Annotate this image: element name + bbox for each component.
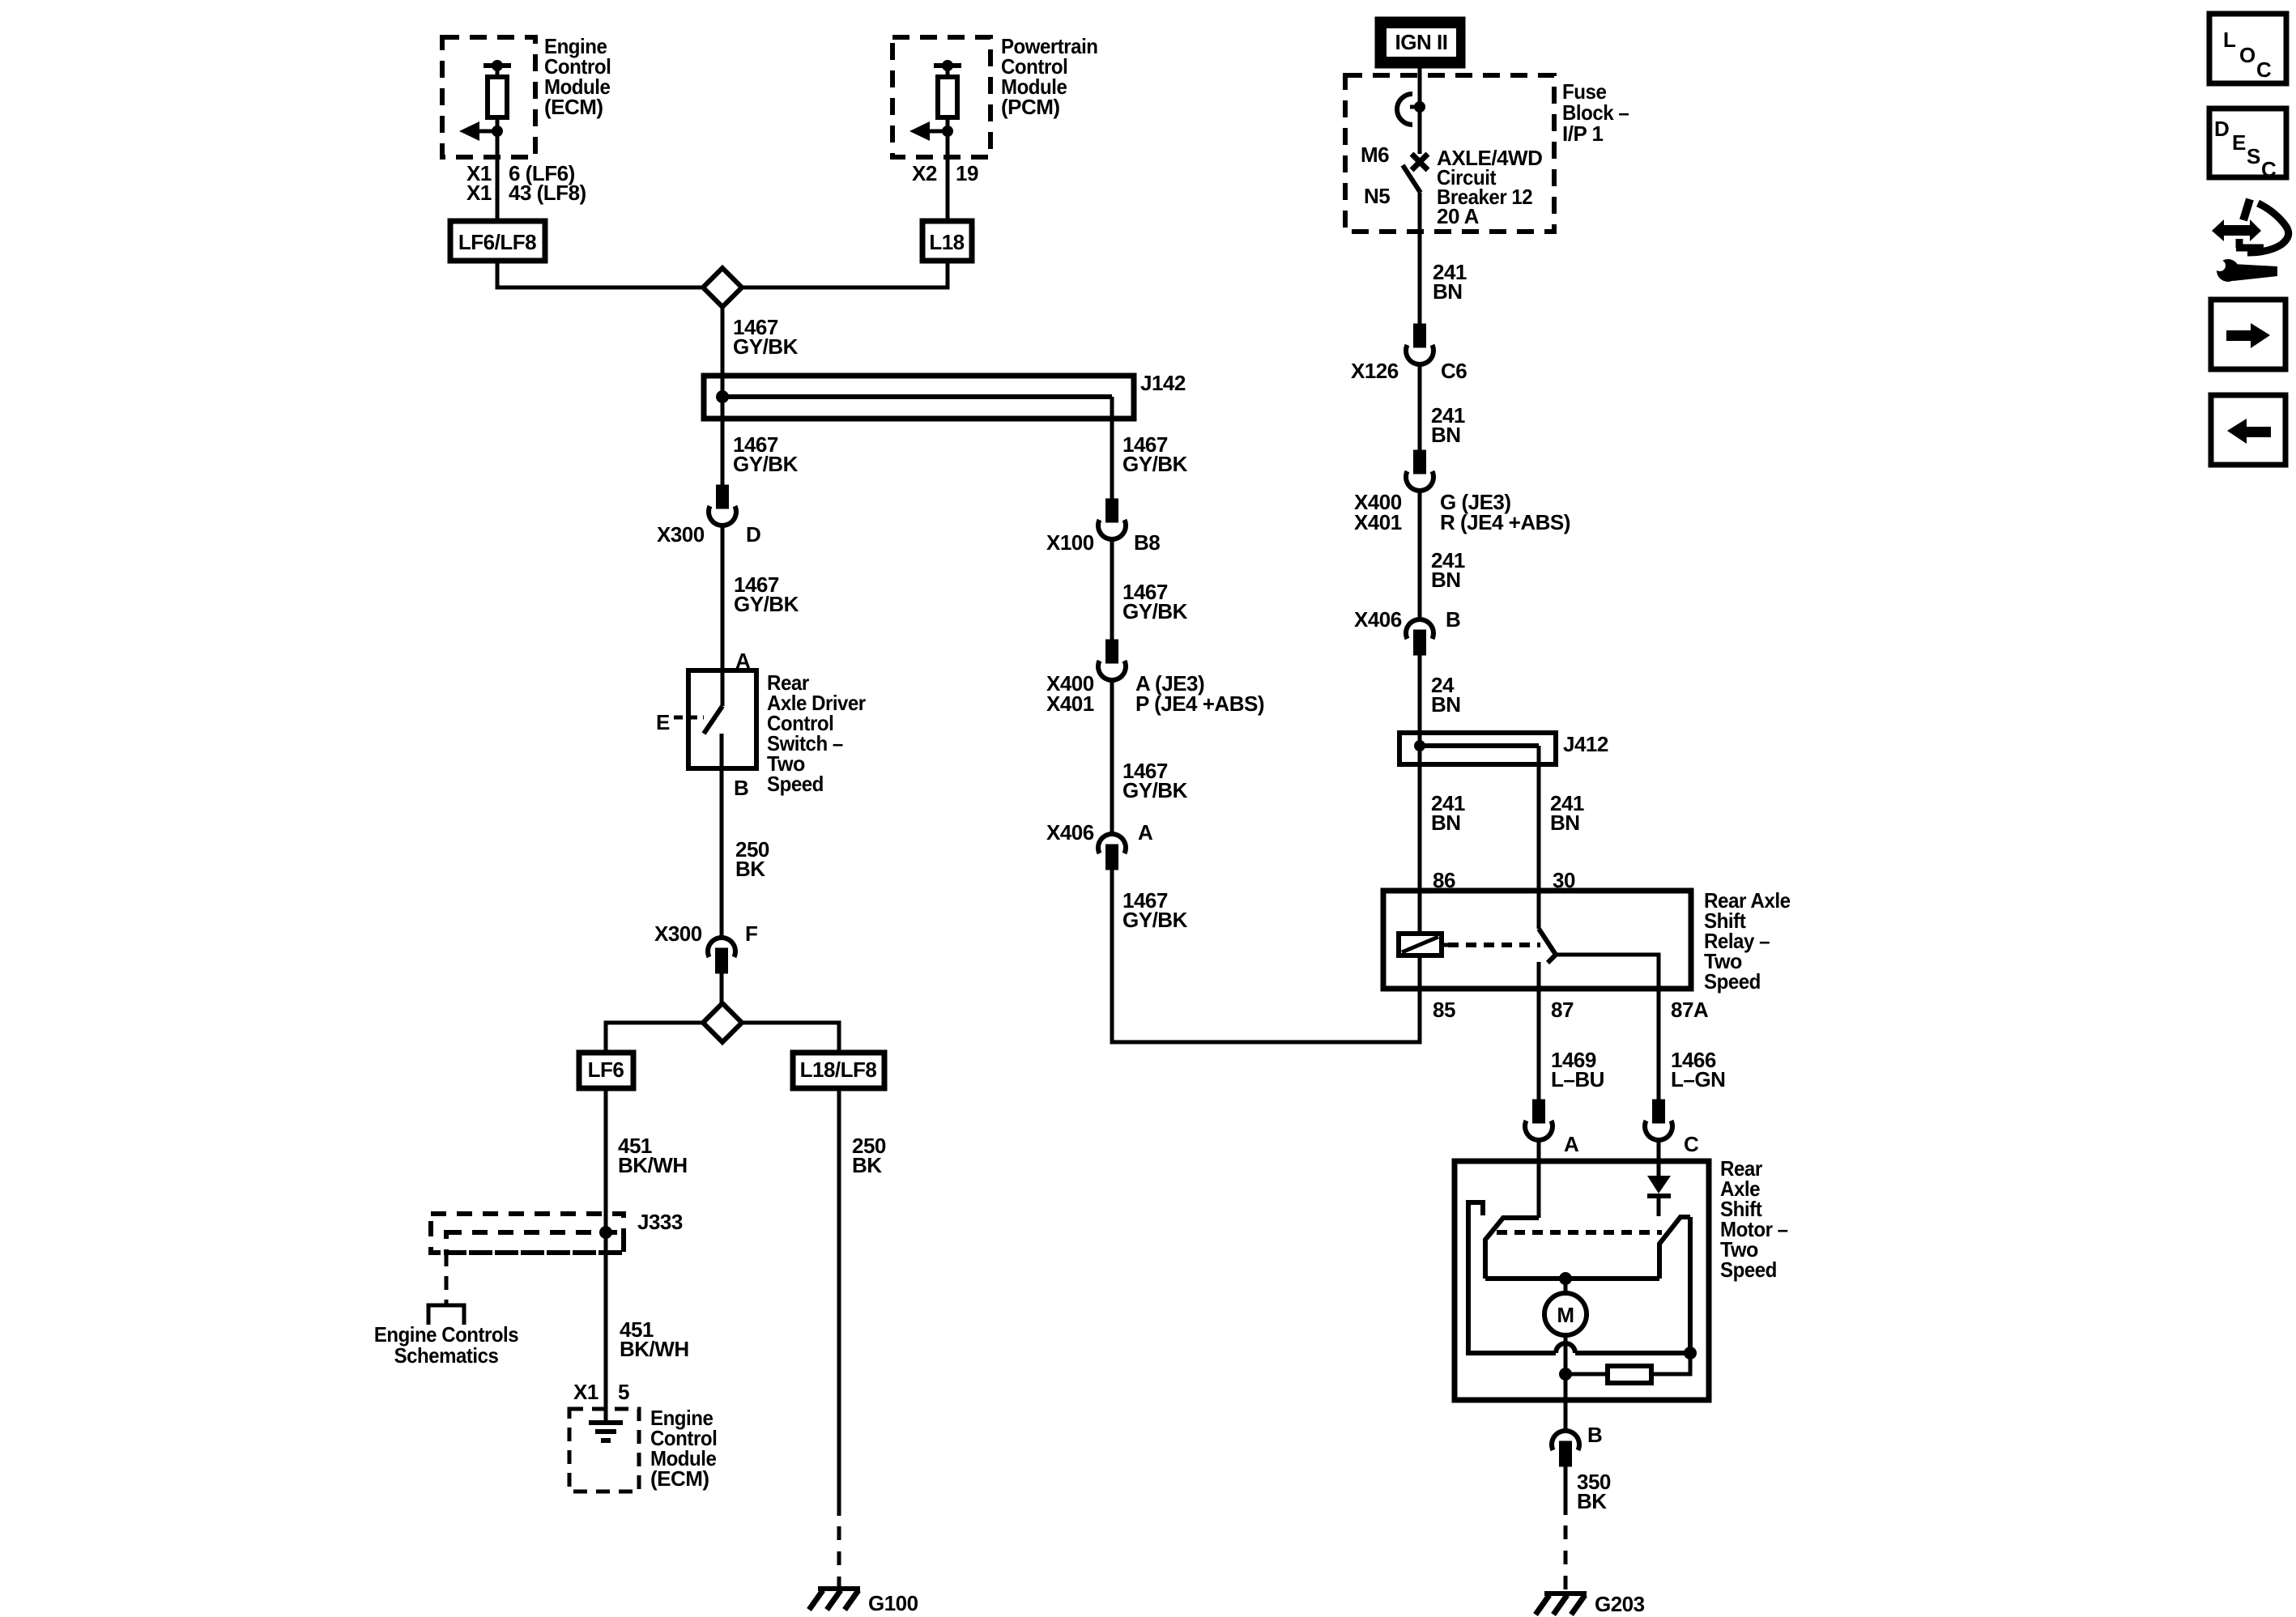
wire 87A to connector C <box>1657 989 1661 1101</box>
svg-text:O: O <box>2239 43 2256 67</box>
ground G100 <box>809 1589 860 1610</box>
node bus to motor junction <box>1559 1272 1572 1285</box>
wire dashed to G203 <box>1564 1526 1568 1592</box>
relay mechanical link (dashed) <box>1448 943 1540 947</box>
labels X406 B <box>1354 607 1460 632</box>
connector X100 pin B8 <box>1098 500 1126 539</box>
svg-text:LF6/LF8: LF6/LF8 <box>458 230 536 254</box>
icon hand with double arrow <box>2212 199 2289 253</box>
ground G203 <box>1536 1594 1587 1615</box>
splice pack J333 dashed boxes <box>431 1214 624 1253</box>
svg-text:R (JE4 +ABS): R (JE4 +ABS) <box>1440 510 1570 534</box>
svg-text:BK: BK <box>1577 1489 1607 1513</box>
wire splice to L18/LF8 <box>742 1023 839 1053</box>
svg-text:L–GN: L–GN <box>1671 1067 1725 1091</box>
connector X400/X401 pin G/R <box>1406 452 1433 491</box>
relay switch blade 30 to 87A <box>1539 929 1659 989</box>
wire IGN II into fuse block <box>1418 66 1422 154</box>
wire J142 right exit down <box>1110 397 1114 500</box>
wire label 250 BK <box>852 1134 886 1177</box>
svg-text:(ECM): (ECM) <box>544 95 603 119</box>
svg-text:GY/BK: GY/BK <box>1122 778 1188 802</box>
wire ECM pigtail to LF6/LF8 <box>496 131 500 221</box>
svg-text:20 A: 20 A <box>1437 204 1480 228</box>
svg-text:BK/WH: BK/WH <box>620 1337 689 1361</box>
wire label 1467 GY/BK <box>733 315 799 359</box>
labels X100 B8 <box>1046 530 1160 555</box>
connector X406 pin A <box>1098 834 1126 868</box>
connector pin B <box>1552 1431 1579 1465</box>
wire J333 off-page leg (dashed) <box>445 1253 449 1305</box>
wire splice down to J142 and X300 D <box>721 287 725 487</box>
ECM internal driver (resistor R and output arrow) <box>459 60 511 141</box>
svg-text:BN: BN <box>1431 423 1461 447</box>
svg-text:X401: X401 <box>1354 510 1402 534</box>
wire A into motor <box>1537 1139 1541 1218</box>
svg-text:5: 5 <box>618 1380 629 1404</box>
svg-text:N5: N5 <box>1364 184 1390 208</box>
wire label 1467 GY/BK (right) <box>1122 432 1188 476</box>
wire X300 F to splice diamond <box>720 971 724 1003</box>
svg-text:A: A <box>1564 1132 1579 1156</box>
svg-text:C: C <box>2261 157 2277 181</box>
wire LF6 down to ECM ground <box>604 1088 608 1422</box>
relay contact 87 pole <box>1537 962 1541 989</box>
svg-text:M: M <box>1557 1303 1574 1327</box>
svg-text:BN: BN <box>1433 279 1463 304</box>
svg-text:87: 87 <box>1551 998 1574 1022</box>
pin labels X2 19 <box>912 161 978 185</box>
splice pack J412 box <box>1399 733 1556 764</box>
svg-text:Speed: Speed <box>767 772 824 796</box>
switch label <box>767 670 866 796</box>
relay coil <box>1399 934 1448 955</box>
svg-text:J333: J333 <box>637 1210 683 1234</box>
wire label 241 BN (right) <box>1550 791 1584 835</box>
svg-text:Speed: Speed <box>1704 969 1761 994</box>
node L18 option box <box>922 221 972 261</box>
svg-text:GY/BK: GY/BK <box>734 592 799 616</box>
labels M6 N5 <box>1361 143 1390 208</box>
svg-text:L–BU: L–BU <box>1551 1067 1604 1091</box>
svg-text:(PCM): (PCM) <box>1001 95 1060 119</box>
node rail junction dot <box>1684 1347 1697 1360</box>
svg-text:B8: B8 <box>1134 530 1160 555</box>
labels X406 A <box>1046 820 1153 845</box>
wire label 1467 GY/BK (left) <box>733 432 799 476</box>
svg-text:X406: X406 <box>1354 607 1402 632</box>
pin labels X1 6 (LF6) / X1 43 (LF8) <box>466 161 586 205</box>
ignition feed hook <box>1397 94 1420 125</box>
rail hop over motor wire <box>1556 1343 1575 1353</box>
svg-text:Schematics: Schematics <box>394 1343 499 1368</box>
wire label 250 BK <box>735 837 769 881</box>
connector pin A <box>1525 1101 1553 1140</box>
labels X300 D <box>657 522 760 547</box>
svg-text:X1: X1 <box>573 1380 598 1404</box>
wire motor to B with junction <box>1559 1335 1572 1432</box>
pin labels 85 87 87A <box>1433 998 1709 1022</box>
power feed IGN II box <box>1377 19 1463 66</box>
rail to right contact <box>1575 1217 1690 1353</box>
J412 internal bus bar <box>1414 740 1539 751</box>
svg-text:43 (LF8): 43 (LF8) <box>509 181 586 205</box>
switch actuator E with link <box>656 710 704 734</box>
svg-text:BN: BN <box>1431 692 1461 717</box>
labels X300 F <box>654 921 757 946</box>
powertrain control module PCM dashed box <box>892 37 990 157</box>
wire B to G203 <box>1564 1465 1568 1515</box>
svg-text:D: D <box>746 522 760 547</box>
motor limit switch left blade <box>1485 1218 1539 1279</box>
svg-text:GY/BK: GY/BK <box>1122 908 1188 932</box>
svg-text:X406: X406 <box>1046 820 1094 845</box>
wire label 1467 GY/BK <box>734 572 799 616</box>
icon DESC box <box>2209 109 2286 181</box>
svg-text:M6: M6 <box>1361 143 1389 167</box>
ECM label <box>544 34 611 119</box>
label Engine Controls Schematics <box>374 1322 518 1368</box>
wire 87 to connector A <box>1537 989 1541 1101</box>
wire L18 to splice <box>742 261 948 287</box>
svg-text:B: B <box>734 776 748 800</box>
resistor <box>1565 1353 1690 1383</box>
wire label 241 BN (left) <box>1431 791 1465 835</box>
off-page bracket <box>428 1305 464 1325</box>
node LF6 option box <box>579 1053 633 1088</box>
wire J412 right exit to relay 30 <box>1537 746 1541 929</box>
connector X126 pin C6 <box>1406 326 1433 364</box>
motor limit switch link (dashed) <box>1497 1230 1662 1235</box>
wire L18/LF8 down to G100 <box>837 1088 841 1516</box>
switch contacts <box>704 670 722 768</box>
relay coil exit 85 <box>1418 955 1422 989</box>
svg-text:C: C <box>2256 57 2272 82</box>
motor common bus <box>1485 1276 1659 1281</box>
icon wrench <box>2214 259 2277 282</box>
rear axle driver control switch box <box>688 670 756 768</box>
wire X400 to X406 <box>1110 679 1114 835</box>
wire label 241 BN <box>1431 403 1465 447</box>
connector X300 pin D <box>709 487 736 526</box>
PCM label <box>1001 34 1098 119</box>
svg-text:GY/BK: GY/BK <box>733 334 799 359</box>
splice diamond <box>703 1003 742 1042</box>
node J333 junction dot <box>599 1226 612 1239</box>
wire label 1466 L-GN <box>1671 1048 1725 1091</box>
motor inner rail with hook <box>1468 1202 1556 1353</box>
wire label 241 BN <box>1431 548 1465 592</box>
svg-text:F: F <box>745 921 757 946</box>
svg-text:E: E <box>2232 130 2246 155</box>
connector pin C <box>1645 1101 1672 1140</box>
fuse block label <box>1562 79 1629 146</box>
svg-text:X401: X401 <box>1046 691 1094 716</box>
node LF6/LF8 option box <box>450 221 545 261</box>
J142 internal bus bar <box>716 390 1112 403</box>
labels X400 X401 A (JE3) P (JE4 +ABS) <box>1046 671 1264 716</box>
svg-text:IGN II: IGN II <box>1395 30 1448 54</box>
icon back arrow box <box>2211 395 2285 465</box>
engine control module ECM dashed box <box>442 37 535 157</box>
wire PCM pigtail to L18 <box>946 131 950 223</box>
wire breaker to X126 <box>1418 193 1422 326</box>
wire X406 B to J412 and relay coil <box>1418 653 1422 934</box>
svg-text:BN: BN <box>1431 568 1461 592</box>
motor label <box>1720 1156 1788 1282</box>
svg-text:J412: J412 <box>1563 732 1608 756</box>
svg-text:87A: 87A <box>1671 998 1709 1022</box>
labels X400 X401 G (JE3) R (JE4 +ABS) <box>1354 490 1570 534</box>
wire LF6/LF8 to splice <box>497 261 703 287</box>
svg-text:L: L <box>2223 28 2236 52</box>
wire label 1469 L-BU <box>1551 1048 1604 1091</box>
svg-text:19: 19 <box>956 161 978 185</box>
svg-text:I/P 1: I/P 1 <box>1562 121 1604 146</box>
wire X400 to X406 <box>1418 490 1422 620</box>
wire label 241 BN <box>1433 260 1467 304</box>
svg-text:G100: G100 <box>868 1591 918 1615</box>
svg-text:D: D <box>2214 117 2229 141</box>
wire splice to LF6 <box>606 1023 703 1053</box>
svg-text:GY/BK: GY/BK <box>1122 599 1188 623</box>
svg-text:B: B <box>1446 607 1460 632</box>
svg-text:X300: X300 <box>657 522 705 547</box>
wire C into motor <box>1657 1139 1661 1176</box>
splice pack J142 box <box>704 376 1134 419</box>
pin labels X1 5 <box>573 1380 629 1404</box>
svg-text:BK/WH: BK/WH <box>618 1153 688 1177</box>
svg-text:S: S <box>2247 144 2260 168</box>
connector X300 pin F <box>708 938 735 972</box>
svg-text:BK: BK <box>852 1153 882 1177</box>
svg-text:B: B <box>1587 1423 1602 1447</box>
ECM label <box>650 1406 717 1491</box>
connector X406 pin B <box>1406 619 1433 653</box>
svg-text:X1: X1 <box>466 181 492 205</box>
node L18/LF8 option box <box>793 1053 884 1088</box>
wire X300 D to switch <box>721 525 725 670</box>
svg-text:C6: C6 <box>1441 359 1467 383</box>
svg-text:X2: X2 <box>912 161 937 185</box>
wire label 350 BK <box>1577 1470 1611 1513</box>
svg-text:C: C <box>1684 1132 1699 1156</box>
pin labels A C <box>1564 1132 1699 1156</box>
wire label 1467 GY/BK <box>1122 759 1188 802</box>
svg-text:85: 85 <box>1433 998 1455 1022</box>
rear axle shift relay box <box>1383 891 1691 989</box>
fuse block I/P 1 dashed box <box>1345 75 1554 232</box>
svg-text:L18: L18 <box>929 230 964 254</box>
engine control module ECM (ground) dashed box <box>569 1409 639 1491</box>
svg-text:A: A <box>1138 820 1153 845</box>
svg-text:E: E <box>656 710 670 734</box>
labels X126 C6 <box>1351 359 1467 383</box>
svg-text:X100: X100 <box>1046 530 1094 555</box>
svg-text:BN: BN <box>1550 811 1580 835</box>
wire X406 A to relay 85 <box>1112 868 1420 1042</box>
wire label 1467 GY/BK <box>1122 580 1188 623</box>
svg-text:G203: G203 <box>1595 1592 1645 1616</box>
relay label <box>1704 888 1791 994</box>
wire label 1467 GY/BK <box>1122 888 1188 932</box>
icon LOC box <box>2209 14 2286 83</box>
ECM internal ground symbol <box>589 1423 623 1440</box>
wire label 451 BK/WH <box>620 1317 689 1361</box>
icon forward arrow box <box>2211 300 2285 369</box>
svg-text:GY/BK: GY/BK <box>1122 452 1188 476</box>
wire label 451 BK/WH <box>618 1134 688 1177</box>
wire dashed to G100 <box>837 1526 841 1589</box>
svg-text:L18/LF8: L18/LF8 <box>800 1057 877 1082</box>
svg-text:J142: J142 <box>1140 371 1186 395</box>
svg-text:(ECM): (ECM) <box>650 1466 709 1491</box>
svg-text:P (JE4 +ABS): P (JE4 +ABS) <box>1135 691 1264 716</box>
svg-text:BN: BN <box>1431 811 1461 835</box>
breaker label <box>1437 146 1542 228</box>
motor M <box>1544 1279 1587 1335</box>
wire switch B to X300 F <box>720 768 724 938</box>
svg-text:X300: X300 <box>654 921 702 946</box>
pin labels 86 30 <box>1433 868 1575 892</box>
motor limit switch right blade <box>1659 1217 1690 1279</box>
connector X400/X401 pin A/P <box>1098 641 1126 680</box>
wire X126 to X400 <box>1418 364 1422 452</box>
svg-text:Speed: Speed <box>1720 1257 1777 1282</box>
svg-text:X126: X126 <box>1351 359 1399 383</box>
circuit breaker 12 symbol <box>1403 154 1428 193</box>
svg-text:BK: BK <box>735 857 765 881</box>
splice diamond <box>703 268 742 307</box>
svg-text:LF6: LF6 <box>588 1057 624 1082</box>
diode <box>1647 1176 1671 1216</box>
node junction dot <box>1414 101 1425 113</box>
PCM internal driver (resistor R and output arrow) <box>909 60 961 141</box>
wire label 24 BN <box>1431 673 1461 717</box>
wire X100 to X400 <box>1110 538 1114 641</box>
svg-text:GY/BK: GY/BK <box>733 452 799 476</box>
rear axle shift motor box <box>1455 1161 1709 1400</box>
